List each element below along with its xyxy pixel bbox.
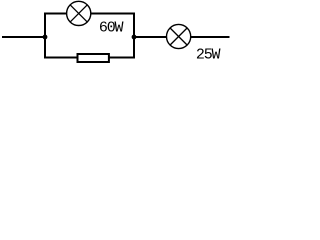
wire top branch right xyxy=(91,13,135,15)
svg-text:25W: 25W xyxy=(196,46,221,63)
resistor R xyxy=(78,54,109,62)
wire middle right xyxy=(134,36,167,38)
wire top branch left xyxy=(44,13,67,15)
junction node A xyxy=(43,35,48,40)
wire bottom branch left xyxy=(44,57,78,59)
wire bottom branch right xyxy=(109,57,135,59)
wire W1 left lead xyxy=(2,36,45,38)
svg-text:60W: 60W xyxy=(99,20,124,37)
wire right lead xyxy=(191,36,230,38)
wire left bus vertical xyxy=(44,13,46,59)
junction node B xyxy=(132,35,137,40)
lamp L2 25W xyxy=(167,24,191,48)
wire right bus vertical xyxy=(133,13,135,59)
lamp L1 60W xyxy=(67,1,91,25)
